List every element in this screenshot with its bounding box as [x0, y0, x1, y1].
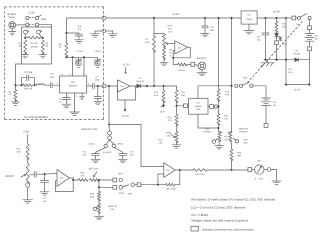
label RF SUB-ASSEMBLY	[24, 116, 48, 119]
jack bias out	[108, 125, 112, 140]
svg-text:R13: R13	[225, 91, 230, 94]
node rail to ground leg	[285, 17, 287, 19]
RF sub-assembly dashed enclosure	[5, 7, 104, 120]
svg-text:3.9K: 3.9K	[90, 196, 95, 199]
node gnd C9	[264, 59, 266, 61]
svg-text:78L05: 78L05	[246, 18, 253, 21]
ground pin2	[70, 112, 80, 115]
label R14 470	[224, 115, 229, 121]
wire to IC4a input	[37, 173, 57, 176]
label K1 E 4S	[29, 12, 35, 15]
label R28 6.8K	[166, 187, 176, 190]
svg-text:Input: Input	[8, 16, 14, 19]
label ANALOG OFFSET	[239, 127, 249, 133]
svg-text:4.5V: 4.5V	[168, 30, 173, 33]
label Lo BATT	[103, 151, 112, 154]
ground R1	[12, 102, 19, 105]
wire to RC network	[15, 84, 21, 86]
svg-text:(4.7V): (4.7V)	[122, 115, 129, 118]
pad IC3 output	[208, 105, 219, 109]
pad B1 top	[308, 26, 312, 33]
svg-text:C11: C11	[83, 150, 88, 153]
svg-text:1: 1	[57, 82, 59, 85]
label R7 3.3K	[145, 38, 150, 44]
IC3 meter driver box	[189, 98, 209, 114]
label S1b	[243, 76, 248, 79]
resistor R12 33K	[175, 86, 178, 106]
label BIAS OUT (Hz)	[82, 128, 98, 131]
pin numbers IC1	[57, 73, 90, 97]
main +4.5V rail	[106, 17, 241, 19]
pad output	[187, 63, 198, 67]
resistor R5 47K	[23, 84, 33, 87]
ground R16	[172, 141, 181, 148]
svg-text:RF SUB-ASSEMBLY: RF SUB-ASSEMBLY	[24, 116, 48, 119]
svg-text:R17: R17	[224, 135, 229, 138]
label 65mv	[118, 142, 124, 145]
label R9 1.5K	[169, 48, 173, 57]
label R1 51	[9, 90, 13, 96]
svg-text:1N4148: 1N4148	[136, 80, 144, 83]
node gnd LED	[275, 59, 277, 61]
wire S1a to B1	[309, 20, 311, 26]
label LED	[282, 43, 287, 46]
IC1 mixer box	[60, 76, 87, 93]
connector J2 output BNC	[198, 62, 206, 70]
label 10 MHz Input	[7, 13, 17, 19]
svg-text:OFFSET: OFFSET	[239, 131, 248, 134]
battery B1 9V	[305, 34, 314, 42]
resistor R10 47	[178, 63, 187, 66]
node output bypass	[97, 85, 99, 87]
resistor R13 4.7K	[217, 89, 220, 107]
resistor R28 6.8K feedback	[158, 170, 180, 186]
label C6 0.1	[78, 25, 82, 31]
svg-text:NE602: NE602	[69, 84, 77, 87]
svg-text:B2: B2	[273, 104, 276, 107]
svg-text:500: 500	[244, 141, 248, 144]
svg-text:51: 51	[9, 93, 12, 96]
potentiometer R18 ANALOG OFFSET	[228, 132, 239, 145]
svg-text:R5 47K: R5 47K	[25, 88, 33, 91]
node osc 1	[72, 56, 74, 58]
resistor R24 10K	[79, 179, 88, 182]
svg-text:R11: R11	[154, 91, 159, 94]
svg-text:(L1) = 1 turn of a C2 lead, 3/: (L1) = 1 turn of a C2 lead, 3/32" diamet…	[191, 205, 246, 209]
svg-text:C5: C5	[59, 98, 63, 101]
node R11 top	[162, 85, 164, 87]
label R18 500	[244, 138, 249, 144]
wire to meter	[207, 169, 248, 171]
svg-text:0.1: 0.1	[78, 28, 82, 31]
capacitor C7 100p series	[92, 84, 94, 89]
wire B2 to pad	[265, 106, 267, 124]
node IC4c out	[179, 169, 181, 171]
wire detector rail	[140, 85, 176, 87]
label IC3	[195, 102, 202, 111]
svg-text:R16: R16	[158, 138, 163, 141]
node loop right	[308, 84, 310, 86]
svg-text:R9: R9	[169, 48, 173, 51]
potentiometer R8 1K set 4.5V	[154, 34, 165, 48]
svg-text:3.3K: 3.3K	[145, 41, 150, 44]
svg-text:S1b: S1b	[243, 76, 248, 79]
label 0.7V testpoint	[123, 64, 130, 74]
svg-text:R18: R18	[244, 138, 249, 141]
label BN OUT	[197, 57, 206, 60]
label R22 10K	[16, 148, 21, 154]
node fb IC4c	[157, 184, 159, 186]
label R10 47	[178, 69, 186, 72]
svg-text:1 amp: 1 amp	[88, 142, 95, 145]
LED D6	[275, 31, 282, 41]
svg-text:IC4: IC4	[120, 85, 124, 88]
svg-text:CAL: CAL	[166, 134, 171, 137]
svg-text:10K: 10K	[17, 151, 21, 154]
ground C5	[94, 64, 101, 67]
node IC4b out	[172, 57, 174, 59]
node RC right	[33, 84, 35, 86]
battery B2 9V	[262, 98, 271, 106]
label B1 9V	[315, 34, 318, 40]
wire to range switch	[99, 179, 113, 181]
svg-text:D4: D4	[139, 77, 143, 80]
svg-text:All resistors 1/4 watt carbon: All resistors 1/4 watt carbon 5% except …	[191, 198, 275, 202]
svg-text:R24: R24	[80, 172, 85, 175]
node bias lower	[108, 123, 110, 125]
ground J2	[197, 70, 207, 76]
svg-text:7: 7	[83, 94, 85, 97]
resistor R7 3.3K	[153, 18, 156, 86]
note IC4	[191, 213, 209, 217]
svg-text:1u5: 1u5	[43, 200, 47, 203]
label D4 1N4148	[136, 77, 144, 83]
svg-text:1K: 1K	[59, 46, 62, 49]
svg-text:C5 5/1: C5 5/1	[94, 50, 101, 53]
svg-text:C7: C7	[96, 75, 100, 78]
label DVM CAL	[166, 131, 171, 137]
note resistors	[191, 198, 275, 202]
resistor R3 series pad	[28, 36, 40, 39]
svg-text:R19: R19	[237, 152, 242, 155]
dashed gang S1a S1b	[248, 21, 304, 83]
battery sense loop	[286, 60, 309, 85]
feedback loop IC4a	[55, 178, 73, 192]
svg-text:1.5: 1.5	[169, 51, 173, 54]
inductor L1	[35, 84, 50, 85]
svg-text:C4 5/1: C4 5/1	[77, 50, 84, 53]
node loop left	[285, 84, 287, 86]
resistor R4 shunt	[41, 40, 44, 54]
label R19 680	[237, 152, 242, 158]
label 1 amp	[88, 142, 95, 145]
capacitor C7a to ground	[94, 86, 101, 101]
svg-text:0.01: 0.01	[82, 153, 87, 156]
wire J1 to relay contacts	[16, 24, 26, 26]
label R24 10K	[80, 172, 85, 178]
svg-text:IC4: IC4	[178, 46, 182, 49]
label C5a	[59, 98, 63, 104]
label C3 0.01	[50, 73, 55, 79]
label 8W	[118, 173, 123, 176]
svg-text:(Lo BATT): (Lo BATT)	[103, 151, 112, 154]
label 4.7V	[122, 115, 129, 118]
label C4 5/1	[77, 50, 84, 53]
svg-text:IC4: IC4	[60, 177, 64, 180]
label R2 56	[19, 42, 23, 48]
pad meter	[248, 168, 252, 172]
svg-text:(0.7V): (0.7V)	[123, 64, 130, 67]
svg-text:0 - 1 mA: 0 - 1 mA	[255, 178, 264, 181]
wire rail feeder R13	[218, 18, 220, 89]
wire pad to meter	[252, 169, 255, 171]
wiper R8 to opamp	[166, 43, 175, 45]
ground C4	[75, 64, 82, 67]
label C5 5/1	[94, 50, 101, 53]
ground R23	[23, 200, 33, 203]
svg-text:8.2K: 8.2K	[154, 94, 159, 97]
node RC left	[20, 84, 22, 86]
rail right of regulator	[257, 17, 292, 19]
capacitor C9 10u	[262, 18, 269, 60]
label 4.7 testpoint	[160, 105, 165, 114]
potentiometer R25 SET CAL	[90, 172, 99, 182]
note voltages	[191, 218, 248, 222]
resistor R19 680	[230, 144, 233, 170]
label 4.5V left	[173, 13, 180, 16]
pad LED	[275, 37, 279, 60]
svg-text:CAL: CAL	[110, 208, 115, 211]
ground R17	[215, 140, 224, 149]
svg-text:Indicates connection via a tes: Indicates connection via a test connecti…	[202, 227, 254, 231]
wire pins to IC1 top	[73, 57, 84, 76]
svg-text:R15: R15	[167, 116, 172, 119]
label R17 100	[224, 135, 229, 141]
resistor R29 1.5K	[193, 169, 207, 172]
svg-text:56: 56	[46, 45, 49, 48]
node R12 bottom	[176, 105, 178, 107]
node R13 R14	[217, 105, 219, 107]
svg-text:2: 2	[76, 94, 78, 97]
svg-text:B1: B1	[315, 34, 318, 37]
svg-text:OFFSET: OFFSET	[203, 131, 212, 134]
switch S1a	[298, 14, 312, 20]
svg-text:R26: R26	[90, 193, 95, 196]
label SET CAL	[89, 168, 99, 171]
relay contact row 2	[26, 23, 39, 26]
connector RF output on border	[102, 84, 106, 88]
wire battery B2 feed to IC3	[198, 86, 232, 99]
node C13	[44, 173, 46, 175]
svg-text:(4.7): (4.7)	[160, 110, 165, 113]
svg-text:IC4 = LM324: IC4 = LM324	[191, 213, 209, 217]
svg-text:IC4: IC4	[166, 169, 170, 172]
label 0-1 mA	[255, 178, 264, 181]
resistor R22 10K	[26, 144, 29, 163]
label R26 3.9K	[90, 193, 95, 199]
wire to row 2	[99, 180, 113, 187]
ground IC5	[244, 24, 254, 34]
svg-text:"8W": "8W"	[118, 173, 123, 176]
ground pin7 small	[80, 93, 85, 100]
pad IC3 input	[184, 104, 189, 108]
ground rail	[264, 59, 295, 61]
svg-text:SET: SET	[168, 27, 173, 30]
svg-text:0.1u: 0.1u	[288, 71, 293, 74]
feedback loop IC4d	[118, 86, 136, 100]
svg-text:R4: R4	[45, 42, 49, 45]
wire rail feeder analog	[231, 18, 233, 132]
svg-text:680: 680	[237, 155, 241, 158]
label D5 1N4148	[293, 50, 301, 56]
label +5V bottom	[23, 131, 29, 134]
label C12 10u	[130, 150, 135, 156]
node SET CAL out	[98, 179, 100, 181]
label R13 4.7K	[225, 91, 230, 97]
capacitor C2 35p bypass loop	[22, 75, 35, 85]
wire IC4c out	[175, 169, 193, 171]
svg-text:R21 6.8K: R21 6.8K	[166, 187, 176, 190]
svg-text:455kHz: 455kHz	[195, 105, 202, 108]
svg-text:470: 470	[224, 118, 228, 121]
capacitor C14 series	[34, 172, 36, 178]
node R20 LED	[275, 17, 277, 19]
feedback IC4b	[173, 47, 190, 58]
wire C3 to IC1	[53, 84, 60, 86]
op-amp IC4c	[164, 163, 176, 178]
potentiometer R23 offset	[21, 163, 29, 184]
label ANALOG CAL	[108, 205, 117, 211]
label IC1 NE602	[69, 81, 77, 87]
label R29 1.5K	[195, 173, 205, 176]
ground R2	[22, 52, 29, 58]
ground meter	[272, 181, 281, 184]
node R7 rail	[153, 17, 155, 19]
svg-text:(20 dB): (20 dB)	[30, 45, 37, 48]
ground C13	[40, 192, 49, 195]
label R4 56	[45, 42, 49, 48]
trimmer capacitor C5	[95, 57, 101, 64]
potentiometer R17 DVM OFFSET	[212, 132, 222, 144]
svg-text:K: K	[170, 54, 172, 57]
capacitor C8 100n	[202, 18, 208, 33]
svg-text:33K: 33K	[181, 94, 185, 97]
label C11 0.01	[82, 150, 87, 156]
svg-text:ANALOG: ANALOG	[239, 127, 248, 130]
svg-text:470: 470	[168, 119, 172, 122]
svg-text:C10: C10	[288, 68, 293, 71]
contact meter right	[264, 168, 271, 172]
node R6 bottom	[65, 56, 67, 58]
svg-text:IC3: IC3	[197, 102, 201, 105]
svg-text:IC5: IC5	[247, 14, 251, 17]
svg-text:C8: C8	[211, 26, 215, 29]
wire RF out to opamp	[106, 85, 118, 87]
op-amp IC4a	[57, 169, 69, 186]
svg-text:BIAS OUT (Hz): BIAS OUT (Hz)	[82, 128, 98, 131]
ground C7a	[94, 101, 102, 104]
svg-text:R7: R7	[146, 38, 150, 41]
label 4.7V battery	[294, 88, 300, 91]
svg-text:100n: 100n	[210, 29, 216, 32]
node pad left	[24, 37, 26, 39]
connector power entry on border	[102, 16, 106, 20]
svg-text:(4.5V): (4.5V)	[173, 13, 180, 16]
svg-text:OFFSET: OFFSET	[5, 175, 15, 178]
wire IC1 output	[87, 85, 92, 87]
svg-text:ANALOG: ANALOG	[108, 205, 117, 208]
attenuator input contacts	[24, 30, 42, 34]
svg-text:R8 1K: R8 1K	[167, 24, 173, 27]
contact range 1	[119, 178, 123, 182]
node rail analog	[230, 17, 232, 19]
resistor R9 1.5K	[163, 46, 166, 60]
contact common	[131, 183, 135, 187]
svg-text:4: 4	[88, 82, 90, 85]
svg-text:R6: R6	[59, 43, 63, 46]
label C13	[43, 197, 48, 203]
capacitor C6 0.1 decoupling	[66, 33, 82, 40]
svg-text:Voltages shown are with respec: Voltages shown are with respect to groun…	[191, 218, 248, 222]
op-amp IC4d buffer	[118, 80, 131, 92]
resistor R2 shunt	[24, 40, 27, 54]
svg-text:1u: 1u	[59, 100, 62, 103]
diode D4 1N4148	[130, 84, 147, 88]
inverting input IC4c	[158, 174, 164, 185]
ground R9	[160, 58, 168, 66]
svg-text:R3 220: R3 220	[30, 42, 38, 45]
ground entry inside	[91, 31, 103, 37]
svg-text:9V: 9V	[315, 37, 318, 40]
resistor R15 470	[175, 106, 178, 132]
resistor R6 1K	[65, 33, 68, 57]
capacitor C11	[92, 148, 106, 160]
pad common	[135, 183, 158, 187]
connector J1 10MHz input BNC	[9, 22, 16, 29]
pad fuse S1a	[292, 16, 298, 20]
potentiometer R16 100 DVM CAL	[171, 132, 178, 143]
wire pin2 to ground	[74, 93, 76, 112]
svg-text:C6: C6	[78, 25, 82, 28]
svg-text:R14: R14	[224, 115, 229, 118]
op-amp IC4b rail splitter	[175, 41, 188, 54]
wire attenuator output down left side	[15, 64, 21, 85]
potentiometer R27 ANALOG CAL	[93, 204, 100, 214]
node test row left	[14, 84, 16, 86]
attenuator box	[22, 27, 52, 64]
wire to output resistor	[173, 58, 177, 65]
regulator IC5 78L05	[241, 11, 257, 24]
node R7 bottom	[153, 85, 155, 87]
switch arms bias	[104, 140, 116, 148]
svg-text:(+5V): (+5V)	[23, 131, 29, 134]
node osc 2	[83, 56, 85, 58]
ground R27	[95, 212, 104, 220]
svg-text:3: 3	[67, 94, 69, 97]
label R16 100	[158, 138, 163, 144]
svg-text:R1: R1	[9, 90, 13, 93]
resistor R20 3.3K	[275, 18, 278, 33]
relay contact row 1	[26, 15, 42, 20]
svg-text:SET CAL: SET CAL	[89, 168, 99, 171]
node C9	[264, 17, 266, 19]
svg-text:(4.5V): (4.5V)	[273, 11, 280, 14]
legend text	[202, 227, 254, 231]
svg-text:BN OUT: BN OUT	[197, 57, 206, 60]
resistor R14 470	[217, 107, 220, 132]
resistor R11 8.2K	[162, 86, 165, 107]
svg-text:9V: 9V	[273, 101, 276, 104]
